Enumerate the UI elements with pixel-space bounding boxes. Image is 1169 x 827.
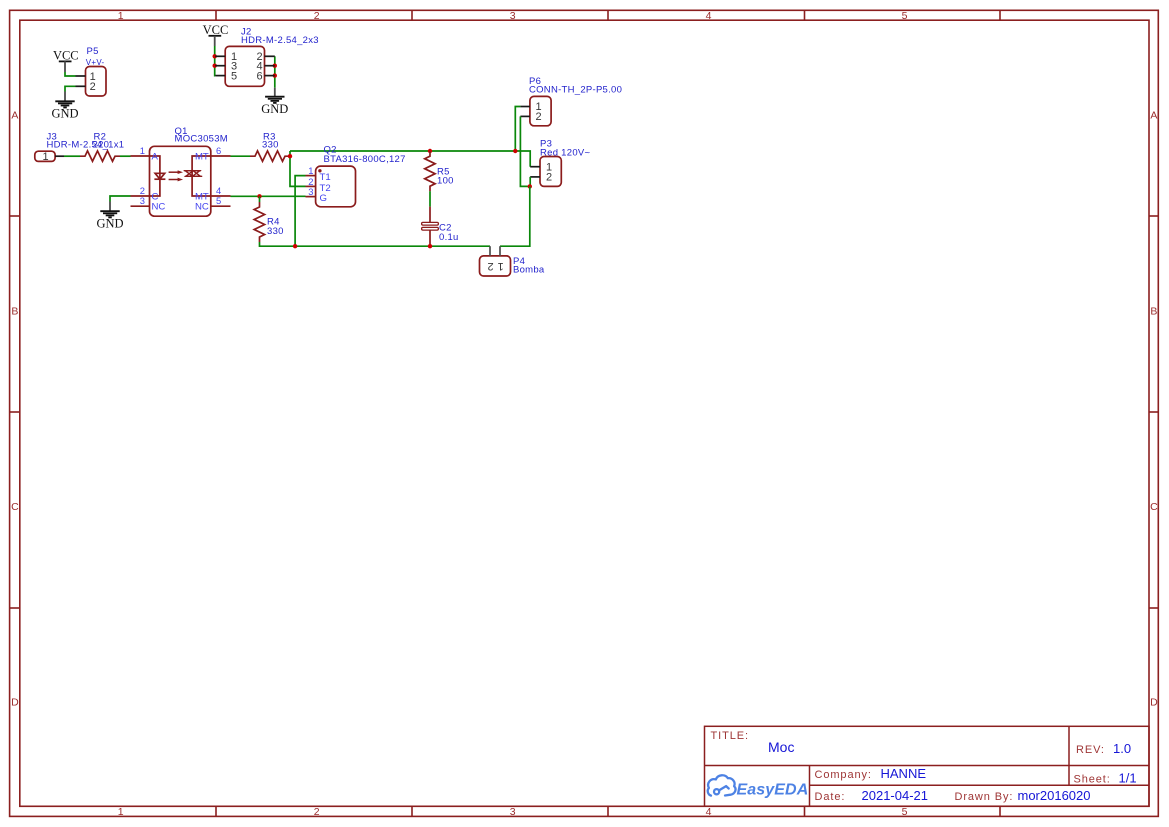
svg-text:3: 3 (308, 186, 313, 197)
internal arrows (169, 171, 182, 181)
wire J2 pins 2,4,6 to GND (274, 56, 276, 87)
svg-text:2: 2 (314, 10, 320, 22)
svg-text:MOC3053M: MOC3053M (175, 133, 228, 144)
wire P5 pin 2 to GND (65, 86, 76, 91)
junction J2 pin1 (213, 54, 217, 58)
junction R3 output (288, 154, 292, 158)
wire P6 pin1 to top net (515, 107, 520, 152)
svg-text:4: 4 (706, 806, 712, 818)
svg-text:B: B (11, 306, 18, 318)
pin names (152, 152, 209, 213)
junction R5 top (428, 149, 432, 153)
wire R5 to C2 (429, 191, 431, 206)
VCC symbol at J2 (203, 23, 229, 46)
svg-text:2021-04-21: 2021-04-21 (862, 788, 929, 803)
junction R4 top (257, 194, 261, 198)
internal triac (184, 156, 211, 196)
svg-text:6: 6 (216, 145, 221, 156)
svg-text:1: 1 (308, 165, 313, 176)
svg-text:A: A (11, 110, 18, 122)
svg-text:5: 5 (902, 10, 908, 22)
triac Q2 (306, 144, 406, 207)
svg-text:Company:: Company: (815, 769, 872, 781)
wire Q1 pin6 to R3 (231, 155, 251, 157)
svg-text:6: 6 (257, 70, 263, 82)
svg-text:NC: NC (195, 202, 209, 213)
svg-text:VCC: VCC (203, 23, 229, 37)
svg-text:GND: GND (261, 102, 288, 116)
svg-text:1/1: 1/1 (1119, 771, 1137, 786)
svg-text:Red 120V~: Red 120V~ (540, 148, 590, 159)
resistor R2 (80, 131, 120, 161)
svg-text:HANNE: HANNE (881, 766, 927, 781)
svg-text:D: D (1150, 697, 1158, 709)
svg-text:EasyEDA: EasyEDA (737, 782, 809, 799)
ground at Q1 (96, 202, 123, 231)
junction J2 pin6 (273, 73, 277, 77)
resistor R4 (254, 196, 284, 242)
svg-text:1: 1 (42, 151, 48, 163)
wire Q1 pin2 to GND (110, 196, 131, 202)
junction C2 bottom (428, 244, 432, 248)
svg-text:G: G (320, 193, 327, 204)
connector J2 (215, 27, 319, 87)
svg-text:3: 3 (510, 10, 516, 22)
svg-text:1: 1 (498, 260, 504, 272)
svg-text:T1: T1 (320, 172, 331, 183)
svg-text:HDR-M-2.54_1x1: HDR-M-2.54_1x1 (47, 139, 125, 150)
svg-text:3: 3 (140, 195, 145, 206)
svg-text:D: D (11, 697, 19, 709)
optocoupler Q1 (131, 126, 231, 216)
wire VCC to P5 pin 1 (65, 72, 76, 76)
svg-text:1: 1 (118, 10, 124, 22)
svg-text:A: A (1150, 110, 1157, 122)
node R3 out / vertical (290, 151, 306, 186)
svg-text:330: 330 (262, 139, 279, 150)
VCC symbol at P5 (53, 49, 79, 72)
wire R4 to bottom net (260, 242, 296, 246)
EasyEDA logo (708, 775, 736, 795)
svg-text:P5: P5 (87, 46, 99, 57)
svg-text:220: 220 (93, 139, 110, 150)
svg-text:mor2016020: mor2016020 (1018, 788, 1091, 803)
svg-text:NC: NC (152, 202, 166, 213)
connector P4 (480, 246, 545, 276)
junction P6 pin1/top net (513, 149, 517, 153)
resistor R3 (250, 131, 290, 161)
svg-text:2: 2 (487, 260, 493, 272)
wire top net to P6/P3 (290, 151, 530, 167)
svg-text:GND: GND (96, 216, 123, 230)
ground at P5 (51, 92, 78, 121)
resistor R5 (425, 151, 454, 191)
svg-text:TITLE:: TITLE: (711, 730, 749, 742)
connector P5 (76, 46, 107, 96)
svg-text:2: 2 (536, 111, 542, 123)
svg-text:V+V-: V+V- (86, 58, 105, 67)
svg-text:330: 330 (267, 226, 284, 237)
junction P3 pin2 node (528, 184, 532, 188)
bottom net wire (295, 245, 490, 247)
svg-text:BTA316-800C,127: BTA316-800C,127 (324, 154, 406, 165)
svg-text:MT: MT (195, 152, 209, 163)
connector P3 (530, 138, 590, 186)
wire Q1 pin4 to Q2 gate (231, 195, 306, 197)
svg-text:3: 3 (510, 806, 516, 818)
wire node down to P4 pin1 (500, 186, 530, 246)
svg-text:4: 4 (706, 10, 712, 22)
svg-text:100: 100 (437, 176, 454, 187)
internal LED (150, 156, 165, 196)
wire R2 to Q1 pin1 (120, 155, 131, 157)
junction J2 pin3 (213, 63, 217, 67)
svg-text:0.1u: 0.1u (439, 232, 459, 243)
wire Q2 T1 down to bottom net (295, 176, 305, 247)
svg-text:2: 2 (314, 806, 320, 818)
svg-text:Date:: Date: (815, 791, 846, 803)
wire VCC to J2 pins 1,3,5 (214, 46, 217, 76)
pin numbers (140, 145, 221, 206)
svg-text:CONN-TH_2P-P5.00: CONN-TH_2P-P5.00 (529, 85, 622, 96)
title block (705, 726, 1150, 806)
capacitor C2 (422, 207, 459, 247)
wire P3 pin2 to node (529, 177, 531, 187)
wire J3 to R2 (64, 155, 80, 157)
svg-text:5: 5 (216, 195, 221, 206)
svg-text:1: 1 (140, 145, 145, 156)
svg-text:HDR-M-2.54_2x3: HDR-M-2.54_2x3 (241, 35, 319, 46)
svg-text:REV:: REV: (1076, 744, 1105, 756)
svg-text:Bomba: Bomba (513, 265, 545, 276)
svg-text:C: C (1150, 501, 1158, 513)
svg-text:5: 5 (231, 70, 237, 82)
svg-text:Drawn By:: Drawn By: (955, 791, 1014, 803)
wire P6 pin2 down (520, 116, 529, 186)
svg-text:1: 1 (118, 806, 124, 818)
svg-text:A: A (152, 152, 159, 163)
connector P6 (520, 76, 622, 126)
svg-text:GND: GND (51, 106, 78, 120)
svg-text:5: 5 (902, 806, 908, 818)
svg-text:Moc: Moc (768, 739, 794, 755)
junction T1/bottom (293, 244, 297, 248)
svg-text:C: C (11, 501, 19, 513)
connector J3 (35, 131, 125, 163)
svg-text:1.0: 1.0 (1113, 741, 1131, 756)
svg-text:2: 2 (90, 81, 96, 93)
junction J2 pin4 (273, 63, 277, 67)
ground at J2 (261, 88, 288, 116)
svg-text:2: 2 (546, 172, 552, 184)
svg-text:B: B (1150, 306, 1157, 318)
svg-text:Sheet:: Sheet: (1074, 774, 1111, 786)
